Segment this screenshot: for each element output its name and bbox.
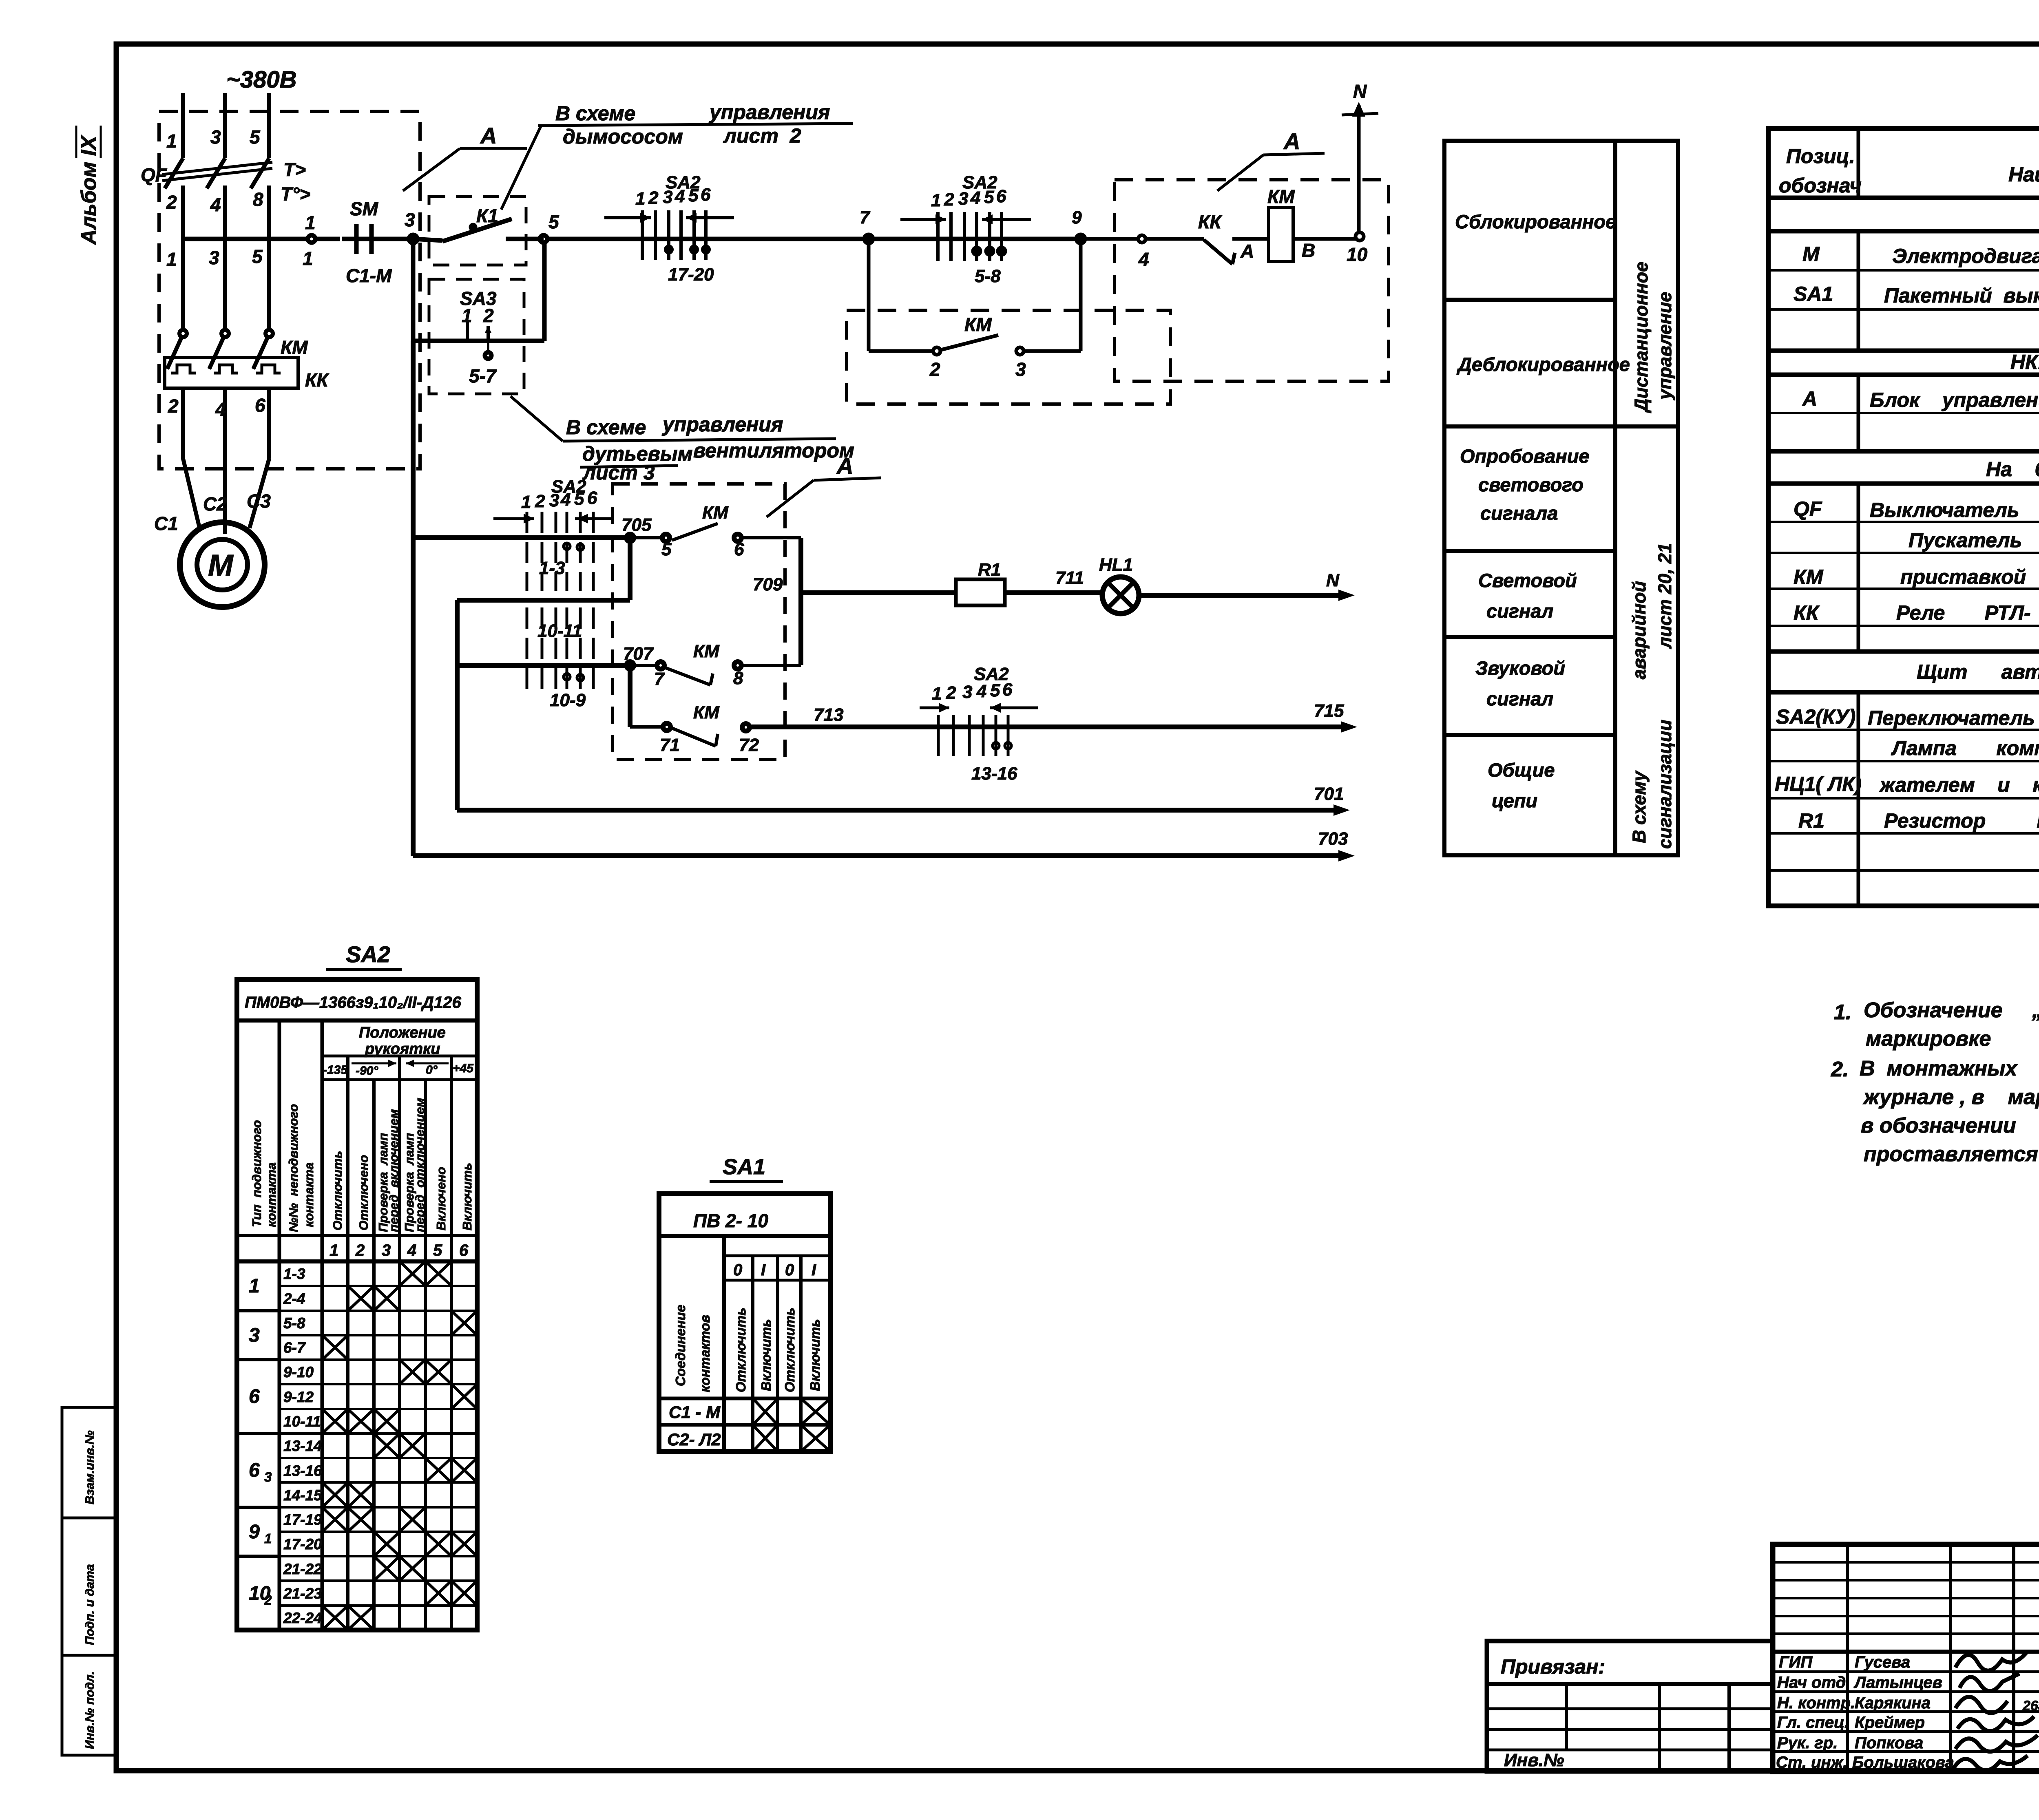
svg-text:дымососом: дымососом (563, 125, 683, 148)
svg-text:10-11: 10-11 (283, 1413, 321, 1430)
svg-text:1: 1 (249, 1275, 260, 1297)
svg-text:контакта: контакта (264, 1162, 279, 1227)
svg-text:0: 0 (733, 1261, 742, 1279)
svg-text:4: 4 (210, 194, 221, 215)
svg-text:в обозначении блоков: в обозначении блоков управления впереди (1861, 1114, 2039, 1137)
svg-text:1: 1 (305, 212, 316, 233)
svg-text:2: 2 (535, 491, 545, 511)
svg-text:Латынцев: Латынцев (1853, 1674, 1942, 1692)
svg-text:3: 3 (210, 126, 221, 148)
svg-text:4: 4 (1138, 249, 1149, 270)
svg-text:Привязан:: Привязан: (1501, 1655, 1605, 1678)
svg-text:Н. контр.: Н. контр. (1777, 1694, 1855, 1712)
svg-text:А: А (1240, 241, 1254, 262)
svg-text:5-8: 5-8 (975, 266, 1001, 286)
svg-text:Электродвигатель А02-31-: Электродвигатель А02-31-2 (1892, 245, 2039, 267)
svg-text:2: 2 (944, 190, 954, 210)
svg-text:управления: управления (708, 101, 830, 124)
svg-text:Включить: Включить (759, 1319, 774, 1391)
svg-text:5-7: 5-7 (469, 365, 497, 387)
svg-text:N: N (1353, 81, 1367, 102)
svg-text:6: 6 (701, 185, 711, 205)
svg-text:М: М (208, 548, 234, 582)
svg-text:Выключатель АЕ 2016- 10: Выключатель АЕ 2016- 10 НУЗ (1870, 499, 2039, 521)
svg-text:КМ: КМ (1267, 186, 1295, 207)
svg-text:4: 4 (976, 681, 986, 701)
svg-text:701: 701 (1314, 784, 1344, 804)
svg-text:Позиц.: Позиц. (1786, 145, 1855, 168)
svg-text:Лампа коммутаторная с: Лампа коммутаторная с ламподер- (1891, 737, 2039, 760)
svg-text:5: 5 (984, 187, 994, 207)
svg-text:А: А (836, 453, 853, 479)
svg-text:703: 703 (1318, 829, 1348, 849)
svg-text:3: 3 (958, 189, 968, 209)
svg-text:SА2: SА2 (346, 941, 390, 967)
svg-text:9-10: 9-10 (283, 1364, 314, 1380)
svg-text:НКУ – щит 1(2,3,4) Щ: НКУ – щит 1(2,3,4) Щ (2010, 351, 2039, 373)
svg-text:С1: С1 (154, 513, 178, 534)
svg-text:КМ: КМ (964, 314, 992, 335)
svg-text:Опробование: Опробование (1460, 445, 1590, 467)
svg-text:HL1: HL1 (1099, 555, 1133, 575)
svg-text:3: 3 (405, 209, 415, 230)
svg-text:перед отключением: перед отключением (413, 1098, 427, 1232)
svg-text:вентилятором: вентилятором (693, 439, 854, 462)
svg-text:А: А (1802, 387, 1817, 410)
svg-text:обознач: обознач (1779, 174, 1862, 197)
svg-text:М: М (1802, 243, 1820, 265)
svg-text:Гусева: Гусева (1855, 1653, 1910, 1671)
svg-text:3: 3 (1015, 359, 1026, 380)
svg-text:10: 10 (1347, 244, 1368, 265)
svg-text:22-24: 22-24 (283, 1610, 322, 1626)
svg-text:-90°: -90° (356, 1064, 378, 1078)
svg-text:3: 3 (663, 187, 672, 207)
svg-text:2: 2 (264, 1592, 272, 1608)
svg-text:Тип подвижного: Тип подвижного (250, 1120, 264, 1227)
svg-text:71: 71 (660, 735, 680, 755)
svg-text:Общие: Общие (1488, 759, 1555, 781)
svg-text:5: 5 (574, 489, 584, 509)
svg-text:Отключить: Отключить (330, 1151, 345, 1230)
svg-text:QF: QF (141, 164, 168, 186)
svg-text:2: 2 (648, 188, 659, 208)
svg-text:На блоке управления: На блоке управления (1986, 458, 2039, 481)
svg-text:0°: 0° (426, 1063, 438, 1077)
svg-text:6: 6 (1002, 680, 1013, 700)
svg-text:1-3: 1-3 (539, 558, 565, 578)
svg-text:Креймер: Креймер (1855, 1714, 1925, 1732)
svg-text:сигнал: сигнал (1486, 688, 1553, 709)
svg-text:КМ: КМ (693, 641, 720, 661)
svg-text:6: 6 (587, 488, 597, 508)
svg-text:перед включением: перед включением (387, 1109, 401, 1232)
svg-text:5: 5 (548, 211, 560, 232)
svg-text:Отключить: Отключить (782, 1308, 797, 1392)
svg-text:В схеме: В схеме (566, 416, 646, 439)
svg-text:0: 0 (785, 1261, 794, 1279)
svg-text:+45: +45 (453, 1062, 474, 1075)
svg-text:9: 9 (1072, 208, 1082, 227)
svg-text:~380В: ~380В (226, 66, 297, 93)
svg-text:2: 2 (946, 683, 956, 703)
svg-text:Включено: Включено (434, 1167, 448, 1230)
svg-text:В: В (1302, 240, 1315, 261)
svg-text:2.: 2. (1831, 1058, 1849, 1081)
svg-text:Инв.№: Инв.№ (1504, 1750, 1564, 1770)
svg-text:сигнала: сигнала (1480, 502, 1558, 524)
svg-text:контактов: контактов (697, 1315, 712, 1392)
svg-text:1: 1 (264, 1531, 272, 1546)
svg-text:лист 2: лист 2 (723, 124, 801, 147)
svg-text:Отключено: Отключено (356, 1155, 371, 1230)
svg-text:Т°>: Т°> (281, 183, 310, 205)
svg-text:6: 6 (459, 1241, 469, 1259)
svg-text:ПВ 2- 10: ПВ 2- 10 (693, 1210, 768, 1231)
svg-text:С2: С2 (203, 493, 227, 515)
svg-text:9-12: 9-12 (283, 1389, 314, 1405)
svg-text:Нач отд: Нач отд (1777, 1674, 1846, 1692)
svg-text:2-4: 2-4 (283, 1290, 305, 1307)
svg-text:5: 5 (433, 1241, 442, 1259)
svg-text:5: 5 (250, 126, 261, 148)
svg-text:3: 3 (209, 247, 219, 268)
svg-text:управления: управления (661, 413, 783, 436)
svg-text:Инв.№ подл.: Инв.№ подл. (83, 1671, 97, 1749)
svg-text:Т>: Т> (283, 159, 306, 180)
svg-text:6-7: 6-7 (283, 1339, 306, 1356)
svg-text:4: 4 (970, 188, 980, 208)
svg-text:Гл. спец.: Гл. спец. (1777, 1714, 1849, 1732)
svg-text:6: 6 (734, 539, 744, 559)
svg-text:1: 1 (521, 492, 531, 512)
svg-text:Альбом IX: Альбом IX (77, 135, 101, 245)
svg-text:SА1: SА1 (723, 1155, 765, 1179)
svg-text:Щит автоматизации: Щит автоматизации Щ – К1 (1917, 660, 2039, 683)
svg-text:8: 8 (733, 668, 743, 688)
svg-text:Наименование: Наименование (2008, 163, 2039, 186)
svg-text:2: 2 (355, 1241, 365, 1259)
svg-text:Включить: Включить (460, 1163, 474, 1230)
svg-text:КМ: КМ (281, 337, 308, 358)
svg-text:приставкой ПКЛ 2204: приставкой ПКЛ 2204 (1900, 565, 2039, 588)
svg-text:Обозначение „0“ соответс: Обозначение „0“ соответствует заводской (1864, 998, 2039, 1022)
svg-text:Дистанционное: Дистанционное (1631, 262, 1652, 413)
svg-text:ГИП: ГИП (1779, 1653, 1813, 1671)
svg-text:А: А (1283, 128, 1300, 154)
svg-text:Пускатель ПМЛ 110 004Б: Пускатель ПМЛ 110 004Б с (1909, 529, 2039, 552)
svg-text:ПМ0ВФ—1366з9₁10₂/II-Д126: ПМ0ВФ—1366з9₁10₂/II-Д126 (245, 994, 461, 1012)
svg-text:6: 6 (249, 1460, 260, 1481)
svg-text:5-8: 5-8 (283, 1315, 305, 1332)
svg-text:14-15: 14-15 (283, 1487, 323, 1504)
svg-text:4: 4 (407, 1241, 416, 1259)
svg-text:1: 1 (931, 190, 941, 210)
svg-text:5: 5 (990, 680, 1000, 700)
svg-text:К1: К1 (476, 205, 498, 226)
svg-text:1.: 1. (1834, 1001, 1851, 1024)
svg-text:SА2(КУ): SА2(КУ) (1776, 705, 1855, 728)
svg-text:4: 4 (560, 490, 571, 510)
svg-text:Звуковой: Звуковой (1475, 657, 1565, 679)
svg-text:Положение: Положение (359, 1024, 446, 1041)
svg-text:26г.: 26г. (2022, 1698, 2039, 1714)
svg-text:жателем и красной линз: жателем и красной линзой КМ60-55 (1879, 773, 2039, 796)
svg-text:R1: R1 (978, 560, 1001, 580)
svg-text:2: 2 (168, 395, 179, 417)
svg-text:3: 3 (264, 1469, 272, 1484)
svg-text:13-16: 13-16 (283, 1462, 322, 1479)
svg-text:Блок управления БОУ 5130-28: Блок управления БОУ 5130-2874УХЛ4Б (1870, 389, 2039, 411)
svg-text:3: 3 (249, 1325, 260, 1346)
svg-text:КК: КК (1794, 601, 1820, 624)
svg-text:709: 709 (753, 574, 783, 594)
svg-text:Ст. инж.: Ст. инж. (1776, 1754, 1847, 1771)
svg-text:713: 713 (814, 705, 843, 725)
svg-text:А: А (480, 123, 497, 148)
svg-text:маркировке зажимов.: маркировке зажимов. (1866, 1027, 2039, 1051)
svg-text:сигнал: сигнал (1486, 600, 1553, 622)
svg-text:I: I (761, 1261, 766, 1279)
svg-text:21-23: 21-23 (283, 1585, 322, 1602)
svg-text:N: N (1326, 570, 1340, 590)
svg-text:13-16: 13-16 (971, 764, 1017, 784)
svg-text:НЦ1( ЛК): НЦ1( ЛК) (1775, 773, 1862, 795)
svg-text:1: 1 (932, 684, 942, 704)
svg-text:I: I (812, 1261, 816, 1279)
svg-text:журнале , в маркировке: журнале , в маркировке аппаратов и кабел… (1862, 1085, 2039, 1109)
svg-text:№№ неподвижного: №№ неподвижного (286, 1104, 301, 1232)
svg-text:Подп. и дата: Подп. и дата (83, 1564, 97, 1645)
svg-text:Карякина: Карякина (1855, 1694, 1931, 1712)
svg-text:QF: QF (1794, 497, 1822, 520)
svg-text:Включить: Включить (807, 1319, 823, 1391)
svg-text:В схеме: В схеме (555, 102, 635, 125)
svg-text:Соединение: Соединение (673, 1305, 688, 1386)
svg-text:1: 1 (330, 1241, 338, 1259)
svg-text:цепи: цепи (1492, 790, 1537, 811)
svg-text:8: 8 (253, 189, 263, 210)
svg-text:В схему авари: В схему аварийной (1629, 581, 1650, 843)
svg-text:управление: управление (1654, 292, 1675, 400)
svg-text:2: 2 (483, 305, 494, 326)
svg-text:Большакова: Большакова (1852, 1754, 1954, 1771)
svg-text:21-22: 21-22 (283, 1561, 322, 1577)
svg-text:2: 2 (166, 192, 177, 213)
svg-text:6: 6 (249, 1386, 260, 1407)
svg-text:2: 2 (929, 359, 940, 380)
svg-text:Отключить: Отключить (733, 1308, 748, 1392)
svg-text:Сблокированное: Сблокированное (1455, 211, 1616, 232)
svg-text:1: 1 (635, 189, 645, 209)
svg-text:Попкова: Попкова (1855, 1734, 1923, 1752)
svg-text:КМ: КМ (1794, 565, 1824, 588)
svg-text:Рук. гр.: Рук. гр. (1777, 1734, 1838, 1752)
svg-text:13-14: 13-14 (283, 1438, 322, 1454)
svg-text:Пакетный выключатель ПВ2-10/: Пакетный выключатель ПВ2-10/У356 (1884, 284, 2039, 307)
svg-text:проставляется номер: проставляется номер электропривода по пл… (1864, 1142, 2039, 1166)
svg-text:Взам.инв.№: Взам.инв.№ (83, 1431, 97, 1504)
svg-text:сигнализации лист: сигнализации лист 20, 21 (1654, 543, 1675, 849)
svg-text:Световой: Световой (1478, 570, 1577, 591)
svg-text:7: 7 (654, 669, 665, 689)
svg-text:707: 707 (623, 644, 654, 664)
svg-text:1: 1 (462, 305, 472, 326)
svg-text:1: 1 (166, 130, 177, 152)
svg-text:5: 5 (252, 246, 263, 267)
svg-text:1: 1 (166, 249, 177, 270)
svg-text:4: 4 (215, 399, 226, 420)
svg-text:1: 1 (303, 248, 313, 269)
svg-text:КМ: КМ (702, 503, 729, 523)
svg-text:7: 7 (860, 208, 871, 227)
svg-text:17-20: 17-20 (668, 265, 714, 285)
svg-text:711: 711 (1055, 568, 1084, 588)
svg-text:контакта: контакта (302, 1162, 316, 1227)
svg-text:3: 3 (382, 1241, 391, 1259)
svg-text:КМ: КМ (693, 702, 720, 722)
svg-text:лист 3: лист 3 (582, 461, 655, 484)
svg-text:Переключатель ПМОВФ –1366з: Переключатель ПМОВФ –1366з9₁10₂/II-Д 126 (1868, 707, 2039, 729)
svg-text:SМ: SМ (350, 198, 379, 219)
svg-text:715: 715 (1314, 701, 1344, 721)
svg-text:С1 - М: С1 - М (669, 1403, 721, 1422)
svg-text:705: 705 (621, 515, 652, 535)
svg-text:5: 5 (661, 539, 672, 559)
svg-text:3: 3 (549, 490, 559, 510)
svg-text:В монтажных схемах щ: В монтажных схемах щитов, в кабельном (1860, 1057, 2039, 1080)
svg-text:Резистор ПЭ-25: Резистор ПЭ-25 (1884, 809, 2039, 832)
svg-text:6: 6 (996, 186, 1006, 206)
svg-text:10-9: 10-9 (550, 690, 586, 710)
svg-text:3: 3 (962, 682, 972, 702)
svg-text:Деблокированное: Деблокированное (1456, 353, 1630, 375)
svg-text:С1-М: С1-М (346, 265, 392, 286)
svg-text:5: 5 (688, 186, 699, 205)
svg-text:светового: светового (1478, 474, 1583, 495)
svg-text:72: 72 (739, 735, 759, 755)
svg-text:17-19: 17-19 (283, 1511, 322, 1528)
svg-text:10-11: 10-11 (537, 621, 582, 641)
svg-text:R1: R1 (1798, 809, 1824, 832)
svg-text:рукоятки: рукоятки (365, 1040, 440, 1058)
svg-text:SА1: SА1 (1794, 283, 1833, 305)
svg-text:9: 9 (249, 1521, 260, 1543)
svg-text:С3: С3 (247, 490, 271, 512)
svg-text:КК: КК (305, 369, 329, 391)
svg-text:Реле РТЛ- 101004: Реле РТЛ- 101004 (1896, 601, 2039, 624)
svg-text:-135: -135 (323, 1063, 348, 1077)
svg-text:17-20: 17-20 (283, 1536, 322, 1553)
svg-text:6: 6 (255, 395, 265, 416)
svg-text:КК: КК (1198, 211, 1222, 232)
svg-text:1-3: 1-3 (283, 1266, 305, 1282)
svg-text:4: 4 (675, 186, 685, 206)
svg-text:С2- Л2: С2- Л2 (667, 1430, 721, 1449)
